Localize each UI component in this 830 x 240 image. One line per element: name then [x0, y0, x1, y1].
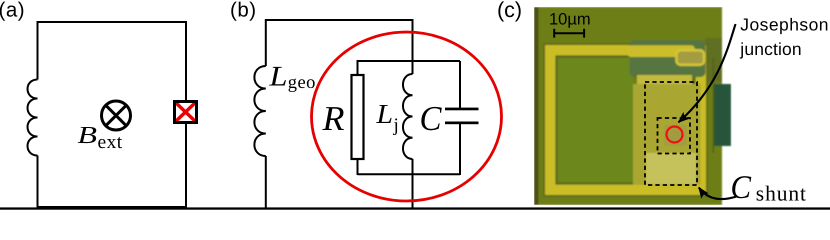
micrograph green electrode region — [630, 40, 706, 77]
shunt capacitor outline dashed — [645, 82, 697, 185]
capacitor C top plate — [445, 108, 479, 111]
svg-text:Josephson: Josephson — [740, 15, 829, 35]
micrograph pad yellow ring — [550, 50, 701, 190]
svg-text:L: L — [375, 98, 393, 129]
micrograph pad top highlight — [637, 75, 692, 84]
svg-text:C: C — [731, 170, 752, 206]
inductor L_geo coil — [254, 66, 265, 156]
micrograph light pad column — [633, 84, 701, 185]
svg-text:R: R — [321, 99, 344, 138]
micrograph photo base — [534, 7, 722, 205]
inner resonator loop top wire — [358, 60, 461, 62]
junction area outline dashed — [658, 118, 691, 154]
capacitor C bottom plate — [445, 122, 479, 125]
inductor coil (a) — [28, 80, 38, 156]
micrograph left dark edge — [534, 7, 539, 205]
svg-text:(c): (c) — [497, 0, 522, 22]
micrograph etched dark square — [558, 58, 634, 183]
micrograph teal electrode — [714, 84, 731, 146]
baseline rule — [0, 207, 830, 209]
svg-text:shunt: shunt — [756, 182, 807, 206]
Josephson junction cross — [175, 102, 197, 123]
arrow to junction — [679, 24, 736, 122]
svg-text:B: B — [78, 122, 98, 149]
outer loop wire (b) — [266, 20, 413, 208]
inner resonator loop bottom wire — [358, 173, 461, 175]
svg-text:L: L — [268, 61, 287, 92]
svg-text:C: C — [420, 99, 443, 138]
svg-text:junction: junction — [739, 39, 802, 59]
scale bar — [554, 29, 584, 38]
Josephson junction box (a) — [175, 102, 197, 123]
resonator highlight ellipse — [312, 32, 502, 201]
svg-text:ext: ext — [98, 132, 123, 153]
inductor L_J coil — [403, 74, 413, 159]
micrograph junction area patch — [664, 125, 687, 146]
micrograph junction blob — [671, 129, 683, 141]
svg-text:(b): (b) — [230, 0, 257, 21]
svg-text:geo: geo — [288, 73, 316, 93]
micrograph bottom bright patch — [646, 153, 696, 184]
micrograph bright tab — [677, 50, 705, 65]
micrograph right top corner shade — [705, 38, 722, 82]
micrograph ring outer dark edge — [544, 44, 707, 196]
capacitor C branch upper wire — [459, 61, 461, 109]
flux symbol cross — [106, 105, 126, 125]
svg-text:j: j — [393, 115, 399, 136]
svg-text:10µm: 10µm — [549, 11, 591, 29]
L_J branch lower wire — [412, 159, 414, 208]
svg-text:(a): (a) — [0, 0, 25, 21]
micrograph ring inner dark edge — [557, 57, 695, 184]
resistor R box — [352, 75, 364, 159]
micrograph yellow band over green — [627, 45, 695, 57]
arrow to C_shunt — [699, 188, 737, 200]
resistor R branch wires — [357, 60, 359, 175]
junction marker circle — [667, 127, 683, 143]
Josephson junction box frame — [175, 102, 197, 123]
loop wire (a) — [38, 22, 187, 207]
capacitor C branch lower wire — [459, 124, 461, 176]
flux symbol circle — [102, 101, 131, 130]
micrograph right strip line — [713, 58, 715, 153]
